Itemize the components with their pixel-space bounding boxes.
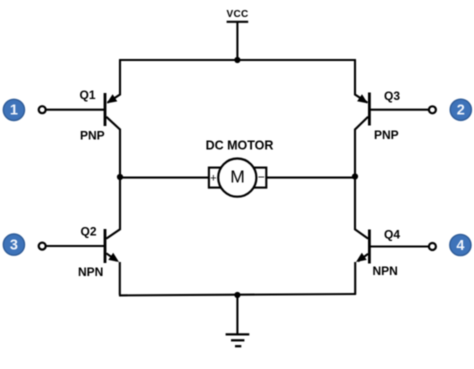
motor terminal box - [254, 168, 266, 188]
terminal 3 open circle [39, 243, 46, 250]
junction motor rail right [352, 173, 358, 179]
wire Q2 emitter [106, 253, 117, 261]
terminal 4 open circle [429, 243, 436, 250]
transistor Q1 emitter arrow (PNP, into base) [107, 94, 118, 103]
transistor Q2 base bar [104, 229, 107, 263]
wire Q1 base lead [45, 109, 104, 111]
transistor Q4 base bar [368, 230, 371, 264]
ground symbol [226, 334, 250, 346]
terminal 1 open circle [39, 106, 46, 113]
svg-text:+: + [210, 173, 216, 185]
svg-text:PNP: PNP [80, 129, 105, 143]
wire bottom rail [119, 294, 356, 295]
pin badge 2 [450, 99, 471, 120]
svg-text:DC MOTOR: DC MOTOR [206, 139, 274, 153]
pin badge 3 [3, 234, 24, 255]
svg-text:2: 2 [457, 103, 465, 119]
svg-text:Q4: Q4 [384, 228, 400, 242]
wire Q1 emitter to top rail [108, 60, 121, 103]
transistor Q4 emitter arrow (NPN, out) [356, 253, 367, 262]
svg-text:Q3: Q3 [384, 89, 400, 103]
wire Q4 emitter to bottom rail [354, 262, 356, 295]
wire Q2 base lead [45, 245, 104, 247]
wire motor rail left [120, 177, 210, 179]
wire Q4 collector to motor rail [355, 177, 368, 239]
svg-text:Q2: Q2 [81, 225, 97, 239]
wire Q2 collector to motor rail [106, 177, 120, 239]
junction top rail / VCC [234, 57, 240, 63]
terminal 2 open circle [429, 106, 436, 113]
transistor Q3 base bar [368, 93, 371, 126]
wire Q3 collector to motor rail [355, 117, 368, 177]
wire top rail [119, 59, 356, 61]
wire ground stub [236, 295, 238, 334]
wire VCC stub [236, 22, 238, 60]
motor M1 body [218, 159, 256, 197]
svg-text:Q1: Q1 [80, 88, 96, 102]
pin badge 1 [3, 99, 24, 120]
wire Q4 emitter [358, 254, 368, 262]
svg-text:NPN: NPN [373, 264, 398, 278]
svg-text:3: 3 [10, 237, 18, 253]
junction motor rail left [117, 174, 123, 180]
wire Q3 emitter to top rail [355, 60, 368, 103]
svg-text:4: 4 [456, 238, 464, 254]
svg-text:1: 1 [10, 103, 18, 119]
VCC power symbol bar [227, 21, 249, 23]
wire motor rail right [265, 177, 355, 179]
transistor Q1 base bar [104, 93, 107, 126]
svg-text:PNP: PNP [374, 128, 399, 142]
svg-text:NPN: NPN [78, 265, 103, 279]
wire Q1 collector to motor rail [106, 117, 120, 177]
junction bottom rail / ground [234, 292, 240, 298]
transistor Q2 emitter arrow (NPN, out) [108, 253, 119, 262]
svg-text:M: M [230, 166, 245, 186]
wire Q3 base lead [370, 109, 429, 111]
pin badge 4 [450, 234, 471, 255]
motor terminal box + [209, 168, 221, 188]
svg-text:−: − [258, 170, 265, 184]
transistor Q3 emitter arrow (PNP, into base) [357, 94, 368, 103]
wire Q4 base lead [370, 245, 429, 247]
wire Q2 emitter to bottom rail [119, 262, 121, 295]
svg-text:VCC: VCC [226, 9, 248, 20]
